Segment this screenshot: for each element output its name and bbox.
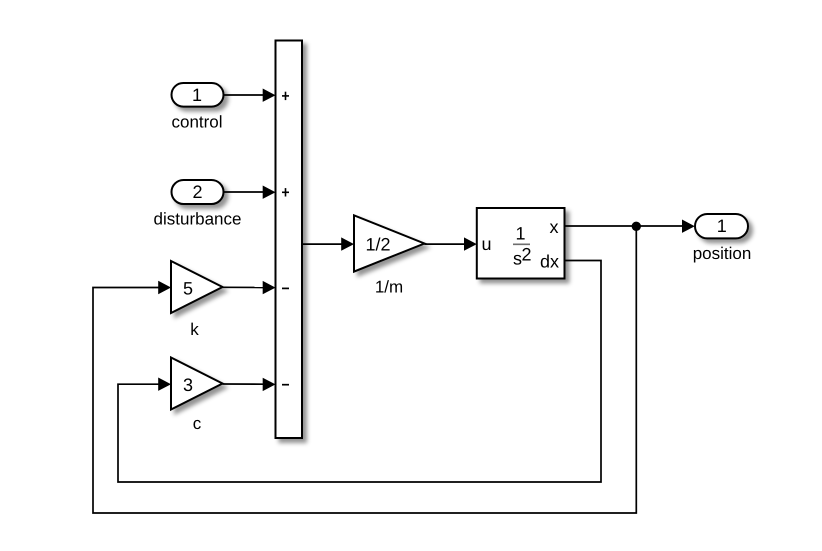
- wire: outer feedback x to gain k: [93, 226, 636, 513]
- svg-text:disturbance: disturbance: [154, 210, 242, 229]
- svg-text:1: 1: [515, 223, 525, 243]
- svg-text:1/2: 1/2: [365, 234, 390, 254]
- wire: sum to gain 1/m: [302, 237, 354, 250]
- gain 1/m (1/2): [354, 215, 424, 296]
- svg-text:1: 1: [192, 85, 202, 105]
- inport 2 (disturbance): [154, 180, 242, 229]
- sign - (port 4): [282, 384, 289, 386]
- svg-text:k: k: [190, 320, 199, 339]
- outport 1 (position): [693, 214, 752, 263]
- svg-text:position: position: [693, 244, 752, 263]
- sign + (port 2): [282, 188, 289, 196]
- svg-text:2: 2: [521, 245, 531, 265]
- svg-text:c: c: [193, 414, 202, 433]
- inport 1 (control): [171, 83, 223, 132]
- svg-text:u: u: [482, 234, 492, 254]
- svg-text:1/m: 1/m: [375, 278, 403, 297]
- node: junction on x wire: [632, 222, 641, 231]
- sign + (port 1): [282, 92, 289, 100]
- svg-text:2: 2: [192, 182, 202, 202]
- wire: inner feedback dx to gain c: [118, 261, 601, 483]
- svg-text:3: 3: [183, 375, 193, 395]
- wire: inport2 to sum: [224, 186, 276, 199]
- wire: inport1 to sum: [224, 89, 276, 102]
- svg-text:control: control: [171, 113, 222, 132]
- sign - (port 3): [282, 287, 289, 289]
- gain k (5): [171, 261, 223, 339]
- svg-text:5: 5: [183, 278, 193, 298]
- sum block: [276, 41, 303, 439]
- svg-text:dx: dx: [540, 252, 559, 272]
- svg-text:1: 1: [717, 216, 727, 236]
- wire: gain 1/m to integrator: [424, 237, 476, 250]
- wire: gain k to sum: [223, 281, 276, 294]
- wire: integrator x output to outport: [565, 220, 695, 233]
- integrator U1 (1/s^2): [477, 208, 565, 279]
- svg-text:x: x: [550, 217, 559, 237]
- gain c (3): [171, 358, 223, 434]
- wire: gain c to sum: [223, 378, 276, 391]
